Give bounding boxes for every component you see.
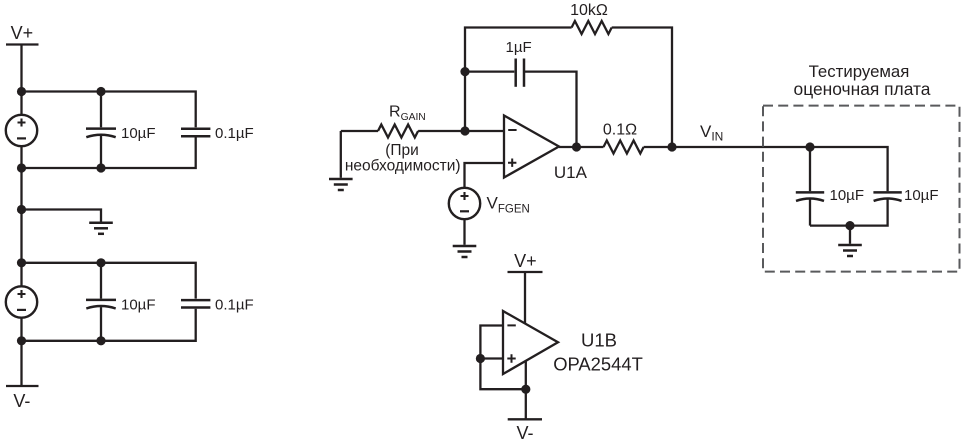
capacitor C3 straight plate: [86, 299, 116, 302]
capacitor C7 stem bottom: [810, 200, 888, 226]
wire V+ rail down left column: [20, 45, 22, 115]
node dot junction (21.5,262.8): [17, 258, 26, 267]
wire VS1 bottom down to lower block: [20, 146, 22, 286]
node dot junction (465,71.6): [460, 67, 469, 76]
node dot junction (101,91.5): [96, 87, 105, 96]
capacitor C5 right lead down to output: [525, 72, 577, 147]
wire RGAIN input down to ground: [340, 131, 342, 178]
op-amp U1A triangle: [504, 116, 559, 178]
U1A inverting input minus sign: [508, 129, 516, 131]
wire non-inverting input from VFGEN: [465, 163, 505, 188]
svg-text:V+: V+: [11, 23, 34, 43]
wire board top rail: [810, 147, 888, 191]
voltage source VS1 circle: [6, 115, 37, 146]
svg-text:необходимости): необходимости): [345, 157, 461, 174]
capacitor C1 curved plate: [86, 135, 115, 137]
capacitor C7 curved plate: [874, 198, 902, 200]
V- terminal bar: [6, 385, 39, 387]
wire U1B V- pin down: [525, 362, 527, 420]
node V+ (left supply): [11, 23, 34, 43]
wire mid to ground: [22, 210, 102, 222]
svg-text:U1A: U1A: [554, 163, 588, 182]
V+ terminal bar (U1B): [508, 271, 543, 273]
wire U1B non-inverting tie: [480, 357, 503, 359]
voltage source VFGEN circle: [449, 188, 480, 219]
VS1 plus sign: [18, 119, 26, 127]
wire 0.1Ohm to evaluation board: [644, 146, 810, 148]
U1B non-inverting input plus sign: [507, 354, 515, 362]
capacitor C1 stem bottom: [100, 136, 102, 168]
resistor R3 0.1Ohm zigzag: [604, 141, 644, 154]
capacitor C2 0.1uF plates: [181, 129, 210, 136]
svg-text:0.1Ω: 0.1Ω: [603, 122, 637, 139]
svg-text:1µF: 1µF: [506, 39, 532, 56]
svg-text:VIN: VIN: [700, 122, 723, 144]
svg-text:10µF: 10µF: [904, 187, 939, 204]
VS2 plus sign: [18, 290, 26, 298]
svg-text:OPA2544T: OPA2544T: [553, 354, 643, 375]
resistor R2 RGAIN zigzag: [378, 125, 418, 138]
svg-text:0.1µF: 0.1µF: [215, 297, 254, 314]
U1A non-inverting input plus sign: [508, 159, 516, 167]
node dot junction (21.5,209.5): [17, 205, 26, 214]
ground GND1: [89, 223, 113, 234]
svg-text:U1B: U1B: [581, 329, 617, 350]
VS2 minus sign: [17, 309, 26, 311]
svg-text:0.1µF: 0.1µF: [215, 125, 254, 142]
wire 10kOhm to right vertical down to output: [612, 28, 672, 148]
capacitor C3 curved plate: [86, 306, 115, 308]
capacitor C5 1uF left lead: [465, 70, 514, 72]
evaluation board dashed box: [763, 106, 960, 272]
svg-text:10µF: 10µF: [121, 297, 156, 314]
wire feedback loop left vertical: [465, 28, 572, 132]
svg-text:10µF: 10µF: [830, 187, 865, 204]
capacitor C1 straight plate: [86, 127, 116, 130]
svg-text:V+: V+: [514, 251, 537, 271]
node dot junction (576.5,147): [572, 142, 581, 151]
node V- (left supply): [13, 391, 30, 411]
node dot junction (21.5,340.8): [17, 336, 26, 345]
capacitor C6 straight plate: [796, 191, 824, 194]
VS1 minus sign: [17, 137, 26, 139]
svg-text:RGAIN: RGAIN: [389, 104, 426, 124]
ground GND4: [838, 245, 862, 256]
op-amp U1B triangle: [503, 311, 558, 374]
node dot junction (21.5,91.5): [17, 87, 26, 96]
node dot junction (850,225.6): [845, 221, 854, 230]
capacitor C7 straight plate: [873, 191, 901, 194]
svg-text:VFGEN: VFGEN: [487, 194, 530, 216]
capacitor C4 0.1uF plates: [181, 300, 210, 307]
node dot junction (480.4,358.5): [476, 354, 485, 363]
capacitor C4 stem bottom: [22, 309, 196, 341]
wire RGAIN left lead: [341, 130, 378, 132]
wire top rail block2 with right corner down: [22, 263, 196, 299]
V+ terminal bar: [6, 43, 39, 45]
node dot junction (810,147): [805, 142, 814, 151]
node dot junction (101,340.8): [96, 336, 105, 345]
capacitor C5 plates: [516, 59, 524, 87]
wire board ground stem: [849, 226, 851, 244]
capacitor C6 stem bottom: [809, 200, 811, 226]
wire VS2 bottom down to V-: [20, 318, 22, 386]
capacitor C6 curved plate: [796, 198, 824, 200]
wire U1B inverting feedback: [480, 326, 525, 390]
node dot junction (101,262.8): [96, 258, 105, 267]
U1B inverting input minus sign: [507, 324, 515, 326]
node dot junction (465,131): [460, 126, 469, 135]
wire U1A output: [559, 146, 604, 148]
svg-text:10kΩ: 10kΩ: [570, 2, 608, 19]
svg-text:V-: V-: [516, 423, 533, 443]
resistor R1 10kOhm zigzag: [572, 21, 612, 34]
node dot junction (101,168): [96, 163, 105, 172]
V- terminal bar (U1B): [508, 418, 542, 420]
voltage source VS2 circle: [6, 286, 37, 317]
wire V+ to U1B: [524, 272, 526, 323]
capacitor C1 10uF stem top: [100, 92, 102, 128]
node dot junction (672,147): [667, 142, 676, 151]
node dot junction (21.5,168): [17, 163, 26, 172]
capacitor C2 stem bottom: [22, 137, 196, 168]
capacitor C3 10uF stem top: [100, 263, 102, 299]
ground GND3: [453, 246, 477, 257]
ground GND2: [329, 179, 353, 190]
wire top rail block1 with right corner down: [22, 92, 196, 128]
capacitor C3 stem bottom: [100, 307, 102, 341]
node V- (U1B supply): [516, 423, 533, 443]
wire VFGEN down to ground: [463, 219, 465, 245]
VFGEN plus sign: [461, 192, 469, 200]
node V+ (U1B supply): [514, 251, 537, 271]
svg-text:V-: V-: [13, 391, 30, 411]
VFGEN minus sign: [460, 210, 469, 212]
svg-text:оценочная плата: оценочная плата: [794, 79, 931, 99]
wire RGAIN right lead to op-amp: [418, 130, 504, 132]
capacitor C6 stem top: [809, 147, 811, 191]
node dot junction (525.8,389.2): [521, 385, 530, 394]
svg-text:10µF: 10µF: [121, 125, 156, 142]
